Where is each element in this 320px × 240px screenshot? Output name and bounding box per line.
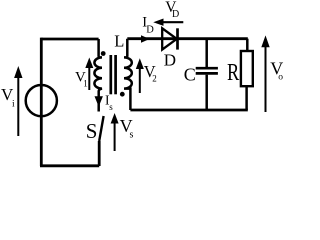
svg-text:C: C [184, 65, 196, 85]
wire bottom rail (primary loop) [40, 164, 99, 167]
svg-text:R: R [227, 60, 239, 86]
svg-text:o: o [278, 72, 283, 82]
svg-text:s: s [109, 102, 113, 112]
wire bottom rail (output section) [130, 109, 247, 112]
svg-text:D: D [164, 50, 176, 69]
diode D triangle [162, 28, 177, 49]
svg-text:1: 1 [83, 79, 88, 89]
svg-text:D: D [172, 9, 179, 20]
wire switch lower [98, 141, 101, 166]
svg-text:i: i [12, 100, 15, 110]
resistor R branch wire lower [245, 86, 248, 110]
svg-text:s: s [130, 129, 134, 140]
svg-text:2: 2 [152, 74, 157, 84]
svg-text:L: L [114, 32, 124, 51]
resistor R box [241, 51, 253, 86]
arrow I_s (on switch wire) [95, 96, 103, 107]
switch S blade [99, 116, 103, 141]
source V_i circle [26, 85, 57, 116]
wire primary feed + winding L primary [94, 39, 102, 112]
arrow V_S [111, 113, 119, 151]
wire left vertical through source [40, 38, 43, 166]
wire top-left (source top to primary top) [41, 38, 98, 41]
arrow V_o [261, 35, 269, 112]
arrow V_i [14, 66, 22, 136]
arrow V_D [153, 19, 183, 26]
diode D cathode bar [176, 28, 179, 49]
capacitor C branch wire upper [205, 39, 208, 67]
arrow I_D (on wire) [141, 35, 150, 43]
capacitor C branch wire lower [205, 75, 208, 110]
capacitor C plates [196, 67, 218, 70]
svg-text:D: D [146, 25, 154, 36]
wire top rail right (secondary top to resistor) [127, 37, 248, 40]
wire secondary feed + winding L secondary [124, 39, 132, 110]
arrow V_1 [85, 58, 93, 91]
svg-text:S: S [86, 119, 98, 143]
resistor R branch wire upper [246, 39, 249, 51]
arrow V_2 [136, 58, 144, 93]
core lines [109, 55, 112, 94]
dot primary polarity [101, 51, 106, 56]
dot secondary polarity [120, 92, 125, 97]
